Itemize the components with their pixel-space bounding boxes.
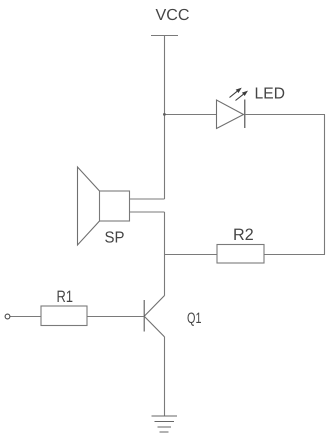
transistor Q1 emitter diagonal <box>144 316 164 337</box>
node VCC-LED junction wire <box>165 114 217 116</box>
transistor Q1 base bar <box>143 300 145 332</box>
wire emitter to ground <box>164 337 166 416</box>
input terminal circle <box>5 314 10 319</box>
label LED <box>256 87 284 98</box>
LED D1 cathode bar <box>244 100 246 129</box>
wire speaker bottom terminal <box>130 211 165 213</box>
transistor Q1 collector diagonal <box>144 296 164 317</box>
wire speaker top terminal <box>130 198 165 200</box>
wire R2 left to collector rail <box>165 254 218 256</box>
wire collector rail lower <box>164 212 166 296</box>
label Q1 <box>188 313 201 326</box>
speaker SP box <box>100 191 130 221</box>
wire input to R1 <box>10 316 41 318</box>
wire base <box>87 316 144 318</box>
LED D1 triangle <box>217 100 244 129</box>
resistor R1 body <box>41 306 87 326</box>
VCC power symbol <box>151 36 178 115</box>
label R1 <box>58 291 73 302</box>
LED light arrow 1 <box>230 88 249 101</box>
wire R2 right <box>264 254 325 256</box>
label VCC <box>156 9 189 20</box>
resistor R2 body <box>217 245 264 264</box>
LED light arrow 2 <box>236 94 244 100</box>
speaker SP cone <box>78 167 100 245</box>
label SP <box>105 231 124 242</box>
label R2 <box>234 228 253 240</box>
wire right rail vertical <box>324 115 326 255</box>
junction dot at LED branch <box>163 113 166 116</box>
ground symbol <box>152 416 178 432</box>
wire LED cathode to right rail <box>245 114 325 116</box>
wire collector rail upper <box>164 114 166 199</box>
